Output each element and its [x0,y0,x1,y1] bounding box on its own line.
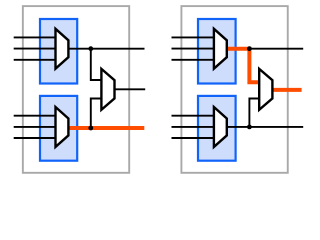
wire: highlighted net (right, mux R1 output routed into mux R3, orange) [227,49,259,82]
mux L2 (bottom left) [56,107,69,147]
mux L3 (output mux, left block) [101,69,114,110]
wire: mux R2 input 2 [172,126,214,128]
wire: mux R2 input 3 [172,137,214,139]
mux R3 (output mux, right block) [259,69,272,110]
wire: net continuing right from node R-a [249,48,303,50]
wire: mux L3 output [115,88,146,90]
wire: mux L1 output [68,48,144,50]
wire: branch from node L-b up into mux L3 bottom input [91,99,102,129]
wire: mux L1 input 1 [14,36,56,38]
wire: branch from node L-a down into mux L3 top input [91,49,102,80]
wire: mux L2 input 1 [14,115,56,117]
node R-b (junction dot on mux R2 output) [247,125,252,130]
mux R2 (bottom right) [214,107,227,147]
wire: highlighted net (left, mux L2 output, orange) [68,126,144,130]
node L-a (junction dot on mux L1 output) [88,46,93,51]
logic block outline (left) [23,6,129,173]
LUT box R2 (right bottom, blue) [198,96,236,161]
wire: mux L2 input 3 [14,137,56,139]
logic block outline (right) [181,6,287,173]
wire: mux R1 input 1 [172,36,214,38]
wire: mux L1 input 3 [14,59,56,61]
LUT box R1 (right top, blue) [198,19,236,84]
LUT box L1 (left top, blue) [40,19,77,84]
wire: mux R2 output [227,126,303,128]
mux L1 (top left) [56,29,69,69]
wire: mux R1 input 3 [172,59,214,61]
mux R1 (top right) [214,29,227,69]
wire: mux R1 input 2 [172,48,214,50]
wire: mux L2 input 2 [14,126,56,128]
wire: mux L1 input 2 [14,48,56,50]
wire: branch from node R-b up into mux R3 bottom input [249,99,259,127]
wire: mux R2 input 1 [172,115,214,117]
node L-b (junction dot on orange net) [88,126,93,131]
LUT box L2 (left bottom, blue) [40,96,77,161]
wire: highlighted net (right, mux R3 output, orange) [272,88,301,92]
node R-a (junction dot on orange net, top) [247,46,252,51]
